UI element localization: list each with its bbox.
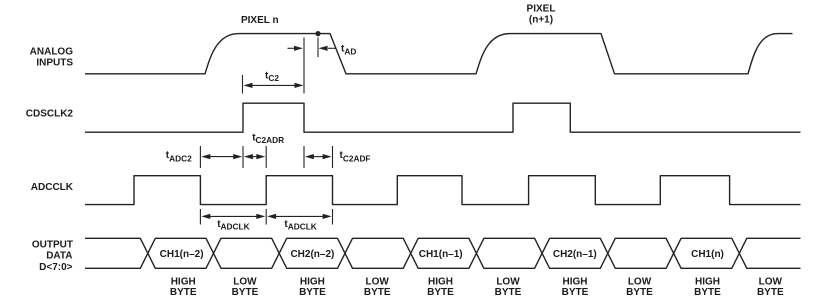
svg-text:ANALOG: ANALOG [30,47,74,58]
svg-text:CH2(n–1): CH2(n–1) [553,249,597,260]
svg-text:CDSCLK2: CDSCLK2 [26,109,74,120]
svg-text:BYTE: BYTE [626,287,653,298]
svg-text:tADCLK: tADCLK [217,219,249,232]
svg-text:BYTE: BYTE [694,287,721,298]
svg-text:INPUTS: INPUTS [36,58,73,69]
svg-text:PIXEL n: PIXEL n [241,15,279,26]
svg-text:OUTPUT: OUTPUT [32,240,73,251]
svg-text:tC2ADR: tC2ADR [252,132,284,145]
svg-text:ADCCLK: ADCCLK [31,182,74,193]
svg-text:(n+1): (n+1) [529,15,553,26]
svg-text:BYTE: BYTE [232,287,259,298]
svg-text:CH1(n): CH1(n) [691,249,724,260]
svg-text:BYTE: BYTE [757,287,784,298]
svg-text:PIXEL: PIXEL [527,4,556,15]
svg-text:BYTE: BYTE [495,287,522,298]
svg-text:BYTE: BYTE [427,287,454,298]
svg-text:BYTE: BYTE [299,287,326,298]
svg-text:tADCLK: tADCLK [284,219,316,232]
svg-text:tC2: tC2 [265,70,279,83]
svg-text:BYTE: BYTE [364,287,391,298]
svg-text:BYTE: BYTE [562,287,589,298]
svg-text:CH1(n–1): CH1(n–1) [419,249,463,260]
svg-text:CH2(n–2): CH2(n–2) [290,249,334,260]
svg-text:D<7:0>: D<7:0> [39,262,73,273]
svg-text:BYTE: BYTE [170,287,197,298]
svg-text:CH1(n–2): CH1(n–2) [160,249,204,260]
svg-text:DATA: DATA [46,251,72,262]
svg-text:tAD: tAD [341,44,356,57]
